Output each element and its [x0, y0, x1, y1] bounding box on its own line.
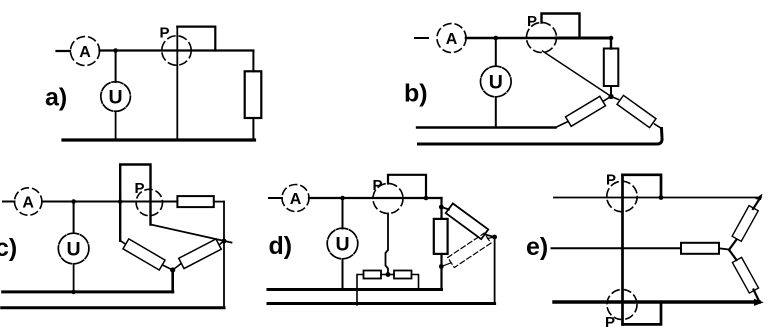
svg-text:d): d)	[269, 232, 293, 260]
wattmeter P6 (bottom)	[607, 290, 637, 320]
wire: R6 to star point	[163, 265, 173, 270]
wire: U2 to upper return rail	[495, 97, 497, 128]
wire: right corner down to load	[252, 51, 254, 72]
wire: upper bottom rail	[3, 290, 173, 293]
wire: upper return rail	[417, 126, 556, 128]
voltmeter U1	[101, 82, 131, 112]
voltmeter U2	[481, 66, 512, 97]
wire: bottom rail	[63, 138, 255, 141]
svg-text:U: U	[109, 87, 123, 109]
resistor R5 (horizontal load)	[177, 196, 213, 207]
resistor R1 (load)	[245, 71, 262, 118]
wire: P3 current-coil loop	[120, 165, 150, 241]
wire: U1 to bottom rail	[115, 111, 117, 140]
resistor R3 (left angled)	[566, 96, 606, 126]
wire: phase line L2 (middle)	[552, 247, 682, 249]
wire: R1 to bottom rail	[252, 118, 254, 140]
wire: main corner down to R10	[440, 198, 442, 219]
wire: R13 to star point	[719, 248, 729, 249]
node: star point	[170, 267, 175, 272]
svg-text:A: A	[22, 194, 34, 211]
wire: R12 to delta right junction	[488, 237, 495, 239]
wire: main line A3 to load resistor	[42, 201, 177, 203]
ammeter A2	[437, 24, 466, 53]
wire: R3 to upper return rail	[556, 122, 569, 128]
ammeter A4	[282, 185, 309, 212]
wire: P2 voltage lead diagonal to star point	[543, 51, 611, 96]
wire: star point to R4	[611, 97, 619, 100]
svg-text:P: P	[606, 172, 616, 189]
svg-text:a): a)	[45, 84, 67, 112]
wire: loop end to R6	[120, 241, 125, 244]
wire: down to voltmeter U1	[115, 51, 117, 83]
wire: R2 to star point	[610, 86, 612, 97]
node: loop landing junction	[424, 196, 429, 201]
wire: star point stub to R15	[729, 250, 737, 260]
wire: R10 down to upper bottom rail	[440, 254, 442, 290]
wire: thick segment before corner	[556, 37, 611, 40]
node: P5 loop landing	[659, 195, 664, 200]
node: artificial neutral point	[386, 272, 391, 277]
svg-text:b): b)	[404, 80, 428, 108]
svg-text:P: P	[605, 314, 615, 331]
resistor R10 (vertical delta)	[434, 219, 448, 254]
wire: down to voltmeter U4	[342, 198, 344, 229]
wire: input lead left of A2	[415, 37, 428, 39]
wire: P2 current-coil loop	[542, 14, 580, 37]
svg-text:U: U	[335, 234, 349, 256]
wire: lower bottom rail	[268, 302, 495, 305]
wire: corner down to R2	[610, 38, 612, 49]
node: delta top junction	[439, 205, 444, 210]
node: U3 tap junction	[71, 199, 76, 204]
wire: P3 voltage lead diagonal	[151, 225, 232, 243]
node: star point	[608, 94, 613, 99]
resistor R2 (phase load)	[604, 49, 619, 87]
node: corner junction	[609, 36, 614, 41]
svg-text:A: A	[79, 44, 91, 61]
wire: phase line L1 (top)	[554, 197, 757, 199]
wire: R14 to L1 end	[753, 198, 761, 210]
wire: R11 to delta right junction	[485, 235, 495, 238]
wattmeter P4	[373, 184, 403, 214]
wire: main line A4 to right corner	[309, 197, 442, 199]
wire: delta bottom junction to R12	[441, 263, 450, 267]
wire: R5 to right vertical	[214, 201, 224, 203]
resistor R4 (right angled)	[617, 95, 656, 127]
svg-text:A: A	[290, 191, 302, 208]
svg-text:c): c)	[0, 234, 17, 262]
svg-text:U: U	[67, 239, 81, 261]
node: delta right junction	[492, 235, 497, 240]
resistor R14 (top angled)	[732, 206, 758, 242]
wire: P4 voltage lead down to artificial neutral	[386, 214, 389, 273]
resistor R8 (neutral left)	[364, 271, 382, 279]
wire: delta top junction to R11	[441, 207, 449, 210]
node: U3 rail junction	[71, 290, 75, 294]
wire: R4 to lower return corner	[655, 124, 662, 129]
wire: star point to R3	[604, 97, 612, 102]
wire: P5 current-coil loop	[623, 175, 662, 198]
wire: phase line L3 (bottom)	[554, 300, 759, 303]
wire: input lead left of A1	[57, 50, 71, 52]
svg-text:P: P	[527, 13, 537, 30]
node: junction of U1 tap	[113, 48, 118, 53]
wire: R8 left end down to lower rail	[357, 275, 364, 306]
wire: star point stub to R14	[729, 240, 737, 250]
node: delta bottom junction	[439, 264, 444, 269]
wire: lower return rail with corner	[419, 129, 663, 145]
wire: down to voltmeter U3	[73, 202, 75, 234]
wire: down to voltmeter U2	[495, 38, 497, 66]
wattmeter P5 (top)	[607, 181, 637, 211]
wire: U3 to upper bottom rail	[73, 264, 75, 292]
wattmeter P2	[527, 23, 557, 53]
ammeter A3	[15, 188, 42, 215]
wire: P1 current-coil loop	[177, 27, 215, 51]
node: U2 tap junction	[494, 36, 499, 41]
resistor R9 (neutral right)	[394, 271, 412, 279]
wire: lower bottom rail	[2, 306, 224, 309]
wire: R15 to L3 end	[754, 290, 760, 302]
wire: main line A1 to right corner	[100, 49, 254, 51]
wire: main line A2 to right corner	[466, 37, 611, 40]
wire: between R8 and R9	[381, 274, 394, 276]
wire: input lead left of A4	[269, 197, 282, 199]
wattmeter P1	[162, 36, 191, 65]
node: junction loop/main line	[118, 199, 123, 204]
wattmeter P3	[136, 189, 162, 215]
voltmeter U3	[58, 233, 89, 264]
wire: P6 current-coil loop	[623, 302, 662, 324]
node: junction diagonal/right vertical	[222, 239, 227, 244]
svg-text:U: U	[489, 72, 503, 94]
node: U4 tap junction	[340, 196, 345, 201]
wire: star point to R7	[173, 264, 181, 270]
wire: upper bottom rail	[268, 288, 442, 291]
wire: U4 to upper bottom rail	[342, 259, 344, 290]
resistor R13 (middle phase load)	[681, 243, 719, 254]
wire: R9 right end down to upper rail	[412, 275, 419, 290]
ammeter A1	[71, 37, 100, 66]
wire: star point down to upper bottom rail	[171, 270, 174, 292]
resistor R7 (right angled)	[179, 239, 222, 269]
wire: P4 current-coil loop	[388, 175, 426, 198]
resistor R12 (bottom angled delta, dashed)	[448, 233, 491, 267]
wire: voltage path vertical through P1 to bottom rail	[176, 27, 178, 140]
wire: wattmeter voltage bus vertical	[621, 175, 624, 325]
resistor R6 (left angled)	[123, 239, 165, 270]
wire: delta right junction down to lower rail	[494, 237, 496, 304]
wire: right vertical down to lower rail	[223, 202, 225, 308]
svg-text:A: A	[446, 31, 458, 48]
arrowhead L3 end	[754, 299, 764, 306]
arrowhead L1 end	[755, 194, 763, 201]
voltmeter U4	[327, 228, 358, 259]
wire: input lead left of A3	[3, 201, 15, 203]
wire: R7 to junction	[220, 241, 225, 245]
resistor R15 (bottom angled)	[732, 257, 758, 293]
resistor R11 (top angled delta)	[446, 203, 489, 239]
svg-text:e): e)	[526, 233, 548, 261]
